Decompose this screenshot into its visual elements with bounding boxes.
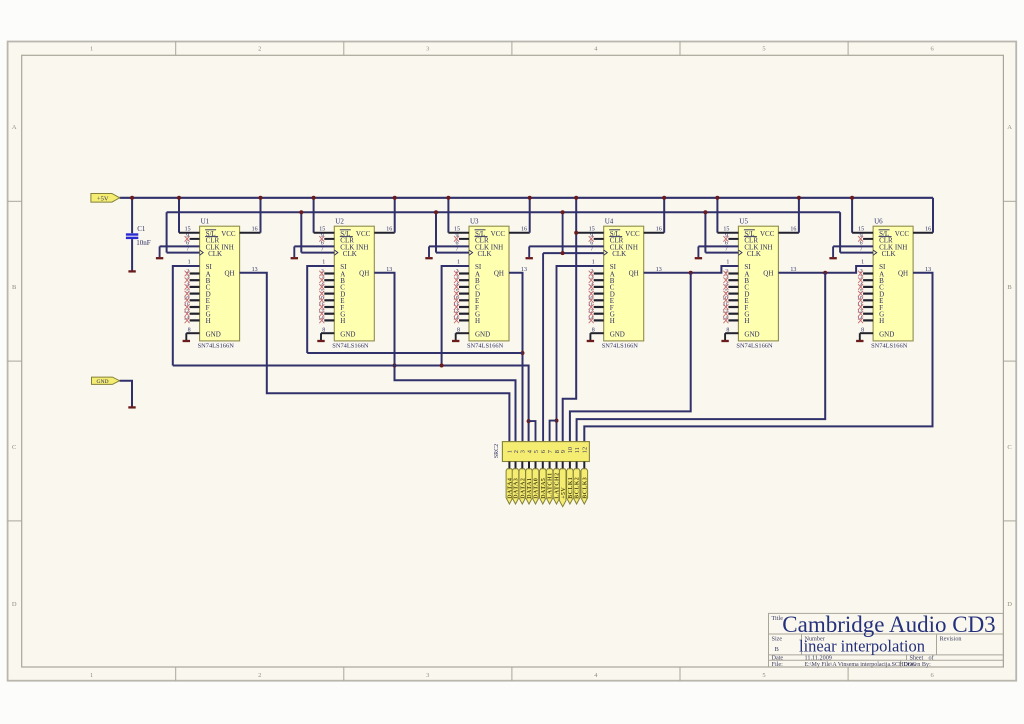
svg-text:VCC: VCC	[895, 230, 910, 238]
svg-text:C1: C1	[137, 225, 146, 233]
svg-text:CLK: CLK	[343, 250, 357, 258]
svg-text:7: 7	[860, 247, 863, 253]
svg-text:15: 15	[185, 227, 191, 233]
svg-text:A: A	[1007, 124, 1012, 131]
svg-text:Size: Size	[772, 636, 783, 643]
svg-text:5: 5	[533, 450, 540, 453]
svg-text:QH: QH	[898, 270, 908, 278]
svg-text:15: 15	[589, 227, 595, 233]
svg-text:Cambridge Audio CD3: Cambridge Audio CD3	[782, 612, 995, 637]
svg-text:1: 1	[861, 260, 864, 266]
svg-text:CLK: CLK	[747, 250, 761, 258]
svg-text:16: 16	[656, 227, 662, 233]
svg-text:3: 3	[426, 46, 429, 53]
svg-text:10nF: 10nF	[136, 239, 151, 247]
svg-text:D: D	[12, 601, 17, 608]
svg-text:16: 16	[790, 227, 796, 233]
svg-text:+5V: +5V	[561, 487, 567, 499]
svg-text:U2: U2	[335, 218, 344, 226]
svg-text:SN74LS166N: SN74LS166N	[736, 343, 773, 350]
svg-text:15: 15	[319, 227, 325, 233]
svg-text:1: 1	[322, 260, 325, 266]
svg-text:SN74LS166N: SN74LS166N	[332, 343, 369, 350]
svg-text:1: 1	[90, 46, 93, 53]
svg-text:H: H	[879, 317, 884, 325]
svg-text:SN74LS166N: SN74LS166N	[467, 343, 504, 350]
svg-text:CLK: CLK	[882, 250, 896, 258]
svg-text:GND: GND	[744, 330, 759, 338]
svg-text:H: H	[340, 317, 345, 325]
svg-text:1: 1	[457, 260, 460, 266]
svg-text:H: H	[744, 317, 749, 325]
svg-text:QH: QH	[359, 270, 369, 278]
svg-text:DATA0: DATA0	[534, 478, 540, 499]
svg-text:1: 1	[188, 260, 191, 266]
svg-text:QH: QH	[763, 270, 773, 278]
svg-text:BCLK2: BCLK2	[575, 477, 581, 499]
svg-text:GND: GND	[206, 330, 221, 338]
svg-text:1: 1	[90, 672, 93, 679]
svg-text:+5V: +5V	[97, 196, 109, 203]
svg-text:E:\My File\A Vinsema interpol: E:\My File\A Vinsema interpolacija.SCHDO…	[805, 662, 917, 668]
svg-text:VCC: VCC	[356, 230, 371, 238]
svg-text:GND: GND	[340, 330, 355, 338]
svg-text:11: 11	[574, 447, 581, 453]
svg-text:B: B	[1007, 284, 1012, 291]
svg-text:GND: GND	[475, 330, 490, 338]
svg-text:D: D	[1007, 601, 1012, 608]
svg-text:SN74LS166N: SN74LS166N	[198, 343, 235, 350]
svg-text:15: 15	[454, 227, 460, 233]
svg-text:VCC: VCC	[625, 230, 640, 238]
svg-text:Drawn By:: Drawn By:	[904, 661, 932, 668]
svg-text:5: 5	[762, 672, 765, 679]
svg-text:2: 2	[258, 46, 261, 53]
svg-text:H: H	[475, 317, 480, 325]
svg-text:7: 7	[725, 247, 728, 253]
svg-text:7: 7	[590, 247, 593, 253]
svg-text:5: 5	[762, 46, 765, 53]
svg-text:U5: U5	[739, 218, 748, 226]
svg-text:7: 7	[186, 247, 189, 253]
svg-text:VCC: VCC	[760, 230, 775, 238]
svg-text:12: 12	[582, 447, 589, 453]
svg-text:QH: QH	[629, 270, 639, 278]
svg-text:GND: GND	[610, 330, 625, 338]
svg-text:7: 7	[321, 247, 324, 253]
svg-text:linear interpolation: linear interpolation	[799, 636, 925, 655]
svg-text:CLK: CLK	[478, 250, 492, 258]
svg-text:7: 7	[456, 247, 459, 253]
svg-text:16: 16	[925, 227, 931, 233]
svg-text:1: 1	[592, 260, 595, 266]
svg-text:U1: U1	[201, 218, 210, 226]
svg-text:2: 2	[258, 672, 261, 679]
svg-text:C: C	[12, 444, 16, 451]
svg-text:3: 3	[426, 672, 429, 679]
svg-text:A: A	[12, 124, 17, 131]
svg-text:CLK: CLK	[208, 250, 222, 258]
svg-text:U6: U6	[874, 218, 883, 226]
svg-text:SN74LS166N: SN74LS166N	[602, 343, 639, 350]
svg-text:Revision: Revision	[940, 636, 962, 643]
svg-text:File:: File:	[772, 661, 784, 668]
svg-text:SRC2: SRC2	[494, 444, 500, 458]
svg-text:H: H	[610, 317, 615, 325]
svg-text:U3: U3	[470, 218, 479, 226]
svg-text:C: C	[1007, 444, 1011, 451]
svg-text:CLK: CLK	[612, 250, 626, 258]
svg-text:QH: QH	[494, 270, 504, 278]
svg-text:GND: GND	[96, 379, 108, 385]
svg-text:9: 9	[560, 450, 567, 453]
svg-text:16: 16	[386, 227, 392, 233]
svg-text:GND: GND	[879, 330, 894, 338]
svg-text:SN74LS166N: SN74LS166N	[871, 343, 908, 350]
svg-text:VCC: VCC	[491, 230, 506, 238]
svg-text:VCC: VCC	[221, 230, 236, 238]
svg-text:11.11.2009: 11.11.2009	[805, 654, 832, 661]
svg-text:B: B	[12, 284, 17, 291]
svg-text:1: 1	[726, 260, 729, 266]
svg-text:H: H	[206, 317, 211, 325]
svg-text:16: 16	[521, 227, 527, 233]
svg-text:16: 16	[252, 227, 258, 233]
svg-text:15: 15	[858, 227, 864, 233]
svg-text:QH: QH	[224, 270, 234, 278]
svg-text:B: B	[775, 646, 780, 653]
svg-text:BCLK3: BCLK3	[582, 477, 588, 499]
svg-text:15: 15	[723, 227, 729, 233]
svg-text:U4: U4	[605, 218, 614, 226]
